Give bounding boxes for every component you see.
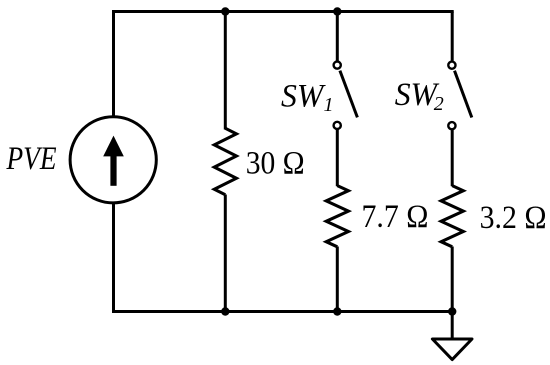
node: bottom junction of 30ohm branch bbox=[221, 307, 229, 315]
node: bottom junction of SW1 branch bbox=[333, 307, 341, 315]
svg-text:SW: SW bbox=[395, 77, 440, 113]
node B: top junction of SW1 branch bbox=[333, 7, 341, 15]
wire: source top lead (left vertical upper) bbox=[112, 12, 115, 118]
wire: bottom horizontal bus bbox=[114, 310, 453, 313]
current source arrow shaft bbox=[110, 155, 116, 186]
svg-text:3.2 Ω: 3.2 Ω bbox=[480, 200, 547, 236]
ground symbol bbox=[432, 339, 472, 360]
wire: SW2 to R3 lead bbox=[451, 130, 454, 186]
resistor R1 30ohm zigzag bbox=[214, 128, 236, 195]
wire: R2 bottom lead bbox=[336, 247, 339, 312]
svg-text:1: 1 bbox=[324, 94, 334, 116]
switch SW1 top terminal bbox=[334, 62, 341, 69]
switch SW2 blade bbox=[455, 71, 472, 118]
wire: ground lead bbox=[451, 312, 454, 338]
resistor R2 7.7ohm zigzag bbox=[326, 186, 348, 247]
svg-text:PVE: PVE bbox=[6, 141, 57, 177]
svg-text:2: 2 bbox=[434, 93, 444, 115]
current source PVE (circle) bbox=[70, 117, 156, 203]
svg-text:30 Ω: 30 Ω bbox=[246, 146, 305, 182]
switch SW1 blade bbox=[340, 71, 358, 118]
node A: top junction of 30ohm branch bbox=[221, 7, 229, 15]
resistor R3 3.2ohm zigzag bbox=[441, 186, 463, 247]
wire: top horizontal bus bbox=[114, 10, 453, 13]
wire: SW1 top lead bbox=[336, 12, 339, 61]
svg-text:SW: SW bbox=[281, 78, 326, 114]
current source arrow head bbox=[103, 136, 124, 157]
wire: R3 bottom lead bbox=[451, 247, 454, 312]
wire: SW2 top lead (right vertical) bbox=[451, 12, 454, 61]
switch SW1 bottom terminal bbox=[334, 122, 341, 129]
wire: source bottom lead (left vertical lower) bbox=[112, 203, 115, 312]
switch SW2 bottom terminal bbox=[448, 122, 455, 129]
switch SW2 top terminal bbox=[448, 62, 455, 69]
svg-text:7.7 Ω: 7.7 Ω bbox=[362, 199, 429, 235]
node: bottom junction at ground bbox=[448, 307, 456, 315]
wire: SW1 to R2 lead bbox=[336, 130, 339, 186]
wire: R1 top lead bbox=[224, 12, 227, 130]
wire: R1 bottom lead bbox=[224, 195, 227, 312]
